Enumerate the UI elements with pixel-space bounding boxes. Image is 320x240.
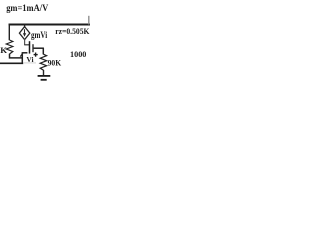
svg-text:gmVi: gmVi: [31, 30, 48, 40]
node minus-bar mark: [22, 52, 27, 54]
plus sign: [34, 54, 38, 56]
background: [0, 0, 90, 90]
wire diamond bottom vertical: [24, 39, 26, 45]
wire right edge stub: [88, 16, 90, 25]
resistor 90K zigzag: [40, 54, 46, 70]
wire resistor K bottom: [10, 54, 23, 58]
wire resistor bottom to ground: [43, 70, 45, 75]
svg-text:K: K: [0, 45, 7, 55]
wire left vertical: [8, 24, 10, 41]
ground bar 2: [41, 79, 47, 81]
wire bottom rail faint continuation: [23, 62, 36, 64]
svg-text:90K: 90K: [48, 57, 62, 67]
dependent source gmVi diamond: [19, 27, 29, 40]
node diagonal tick: [20, 53, 22, 56]
svg-text:rz=0.505K: rz=0.505K: [55, 26, 90, 36]
wire to capacitor left: [24, 44, 29, 46]
resistor K (left zigzag): [6, 40, 13, 54]
capacitor right plate: [32, 44, 34, 52]
wire top rail: [9, 24, 90, 26]
ground bar 1: [38, 75, 51, 77]
wire bottom rail (dark): [0, 62, 23, 64]
svg-text:1000: 1000: [70, 49, 87, 59]
dependent source gmVi stub top: [24, 24, 26, 27]
dependent source arrow (down): [24, 29, 26, 33]
wire down to resistor 90K: [42, 48, 44, 54]
wire jog down to bottom rail: [21, 52, 23, 63]
wire from capacitor right: [33, 47, 44, 49]
svg-text:gm=1mA/V: gm=1mA/V: [6, 3, 48, 13]
svg-text:Vi: Vi: [26, 55, 33, 64]
capacitor left plate: [29, 41, 31, 53]
